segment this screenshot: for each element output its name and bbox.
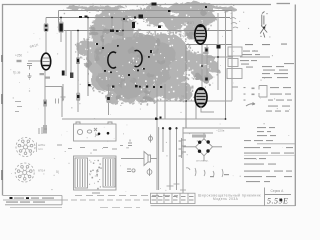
svg-text:Модель 203А: Модель 203А — [213, 197, 239, 201]
wire rectifier left — [183, 146, 196, 148]
IF transformer L6 — [227, 69, 242, 79]
wire pickup stub — [61, 87, 63, 118]
ground G1 — [28, 73, 32, 79]
capacitor C6 — [205, 47, 209, 54]
switch wafer dot — [169, 127, 172, 130]
svg-text:~220в: ~220в — [216, 129, 225, 133]
svg-text:Серия А: Серия А — [271, 189, 285, 193]
wire ground bus — [140, 100, 232, 102]
svg-text:6П14: 6П14 — [179, 99, 186, 103]
resistor R5 — [46, 77, 51, 79]
capacitor C8 — [204, 76, 208, 84]
svg-text:сел.выпр.: сел.выпр. — [196, 159, 209, 163]
wire transformer secondary — [184, 132, 214, 134]
wire V1 cathode drop — [44, 70, 46, 133]
wire osc grid branch — [102, 31, 104, 51]
capacitor C5 electrolytic — [76, 93, 80, 102]
capacitor C2 — [58, 22, 63, 34]
socket label bracket — [36, 143, 38, 153]
wire output column — [156, 84, 158, 190]
chassis caption rows — [57, 145, 62, 146]
wire band rail A — [217, 13, 219, 90]
wire AF coupling drop — [164, 84, 166, 119]
svg-text:зв: зв — [126, 146, 129, 150]
wire IF primary branch — [122, 18, 124, 41]
switch wafer dot 3 — [175, 127, 177, 129]
resistor R2 — [62, 71, 65, 76]
revision table — [151, 193, 196, 203]
switch column base ticks — [167, 184, 187, 190]
wire grid lead V1 — [28, 60, 41, 62]
capacitor C1 — [44, 23, 49, 32]
wire rectifier feed — [185, 45, 187, 129]
svg-text:Гр.зв: Гр.зв — [13, 71, 21, 75]
chassis underside view — [74, 156, 117, 190]
jack J2 — [147, 170, 152, 175]
svg-text:+250: +250 — [15, 54, 22, 58]
wire mains rail — [183, 127, 240, 129]
IF transformer L4 — [228, 47, 242, 56]
tube V4 — [195, 88, 207, 107]
underside parts speckles — [89, 160, 102, 190]
capacitor C9 trimmer — [217, 45, 221, 49]
wire R3 branch — [77, 31, 79, 113]
wire R2 branch — [70, 31, 72, 79]
paper stain — [66, 1, 236, 103]
revision stamp — [3, 196, 62, 205]
wire switch column 1 — [162, 127, 164, 152]
wire tuning section riser — [87, 18, 89, 97]
chassis top view — [74, 122, 117, 141]
page border frame — [3, 4, 296, 207]
wire voice coil lead — [151, 158, 158, 160]
capacitor C4 — [76, 58, 79, 65]
switch wafer dot 2 — [162, 127, 164, 129]
tube V2 envelope left arc — [108, 52, 116, 68]
terminal labels Ant Zem — [245, 44, 253, 45]
capacitor C10 — [43, 100, 47, 107]
pin marks under stain — [88, 84, 91, 86]
capacitor C3 — [27, 64, 32, 70]
IF transformer L5 — [228, 59, 238, 67]
jack J1 — [149, 137, 153, 141]
label right rail note — [232, 87, 238, 88]
wire IF link — [207, 56, 233, 58]
notes rule 1 — [257, 143, 295, 145]
capacitor C11 — [43, 125, 47, 134]
jack symbol above sockets — [39, 127, 47, 134]
title block divider — [265, 188, 292, 206]
wire rectifier right — [213, 146, 223, 148]
notes rule 2 — [244, 155, 295, 157]
loudspeaker LS1 — [144, 152, 151, 166]
fuse leads — [186, 168, 223, 177]
tube V1 — [41, 53, 50, 70]
wire rectifier bottom — [203, 156, 205, 161]
bridge rectifier VD1-VD4 — [196, 139, 213, 156]
capacitor C12 — [56, 99, 59, 104]
dial scale marks — [230, 18, 238, 29]
pickup terminals — [128, 140, 132, 146]
switch table rule — [240, 56, 270, 58]
wire switch column 2 — [169, 127, 171, 190]
wire schematic right rail — [231, 11, 233, 101]
resistor R4 — [40, 73, 45, 75]
wire top rail — [59, 10, 233, 12]
socket diagram V4 base — [15, 163, 34, 182]
chassis arrow — [61, 84, 66, 99]
pencil mark X — [260, 12, 267, 38]
arrow to mains — [246, 103, 255, 107]
wire AVC bus — [60, 30, 232, 32]
wire heater bus — [62, 118, 226, 120]
wire screen rail — [186, 44, 232, 46]
stamp tail dashes — [62, 199, 150, 201]
capacitor C7 electrolytic — [106, 95, 110, 104]
wire detector drop — [145, 84, 147, 101]
notes list — [257, 127, 266, 128]
wire band rail B — [225, 11, 227, 120]
label left notes — [15, 101, 21, 102]
wire cathode link — [45, 86, 62, 88]
wire output column return — [158, 127, 160, 190]
heater bus ticks — [155, 118, 157, 120]
wire speaker lead — [121, 158, 144, 160]
wire switch column 3 — [176, 127, 178, 190]
wire C6 branch — [206, 45, 208, 84]
wire V4 cathode lead — [195, 100, 197, 119]
svg-text:5|: 5| — [56, 170, 59, 174]
wire V4 cathode down — [201, 107, 214, 113]
wire C7 lead — [108, 84, 110, 115]
wire V1 anode riser — [45, 18, 47, 54]
wire mixer branch — [111, 18, 113, 31]
tube V2a envelope right arc — [135, 50, 143, 66]
wire input rail — [58, 11, 60, 31]
wire R2a branch — [65, 31, 67, 77]
svg-text:6П14: 6П14 — [38, 169, 45, 173]
dashed frame bottom — [75, 195, 178, 197]
svg-text:плт.: плт. — [38, 147, 43, 151]
wire V3 anode lead — [201, 42, 203, 90]
resistor R3 — [70, 73, 73, 79]
node junctions — [60, 17, 62, 19]
svg-text:6И1П: 6И1П — [185, 21, 194, 25]
aux terminal — [127, 169, 131, 172]
wire switch column 4 — [182, 127, 184, 193]
scanner edge artifact — [1, 55, 3, 180]
tube V3 — [195, 25, 206, 44]
connector P1 — [259, 86, 267, 98]
svg-text:5.59Е: 5.59Е — [267, 197, 288, 206]
title block bottom rule — [151, 205, 296, 207]
transformer T1 winding — [179, 138, 187, 158]
wire rectifier top — [203, 133, 205, 139]
socket diagram V1 base — [16, 138, 35, 157]
wire C2 branch — [60, 18, 62, 43]
resistor R1 — [17, 60, 22, 62]
wire HT bus — [46, 17, 230, 19]
